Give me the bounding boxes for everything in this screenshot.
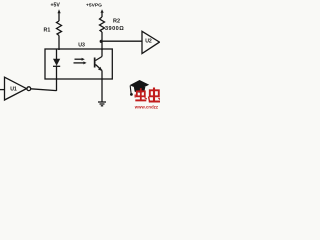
svg-text:U1: U1 — [10, 87, 17, 93]
svg-text:R1: R1 — [44, 27, 51, 33]
svg-text:R2: R2 — [113, 19, 120, 25]
svg-text:U2: U2 — [145, 39, 152, 45]
svg-text:+5VPG: +5VPG — [86, 3, 102, 9]
svg-text:www.cndzz: www.cndzz — [134, 104, 158, 109]
svg-text:+5V: +5V — [51, 2, 61, 8]
svg-text:3900Ω: 3900Ω — [105, 26, 124, 32]
svg-text:U3: U3 — [78, 42, 85, 48]
